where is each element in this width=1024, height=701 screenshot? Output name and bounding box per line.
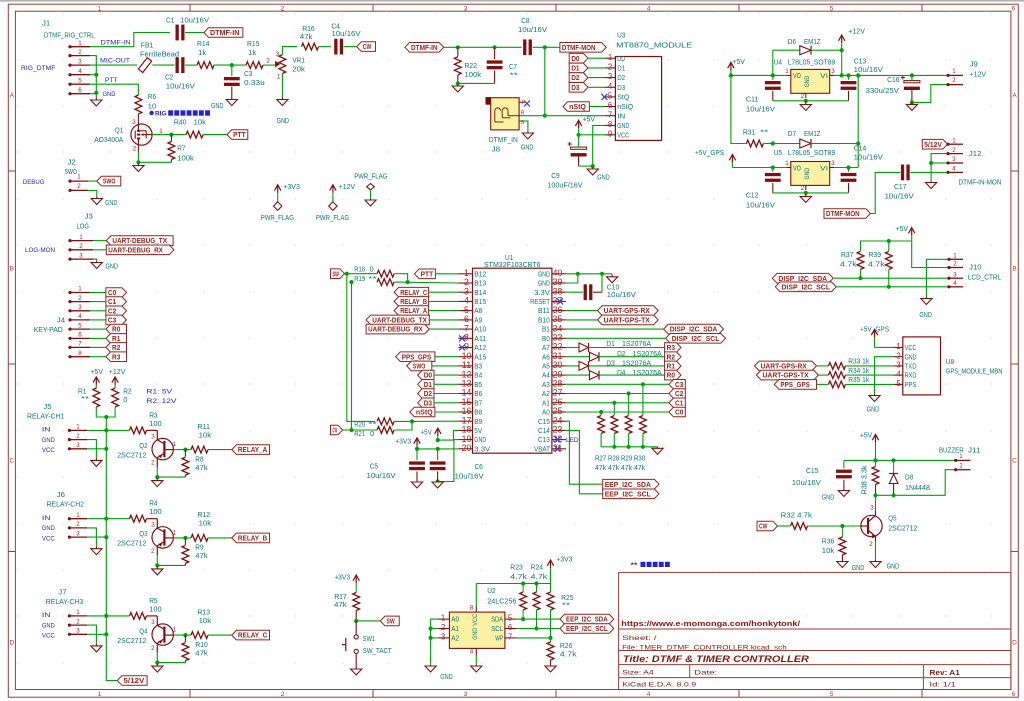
svg-text:1: 1 bbox=[441, 614, 445, 623]
svg-text:B: B bbox=[10, 266, 14, 273]
svg-text:R39: R39 bbox=[869, 252, 882, 259]
resistor R29 47k bbox=[628, 394, 630, 416]
svg-text:2: 2 bbox=[133, 146, 137, 153]
global label PPS_GPS gps bbox=[774, 380, 816, 390]
svg-text:5: 5 bbox=[78, 78, 82, 85]
wire J1 pin4 bbox=[90, 74, 96, 76]
svg-text:Sheet: /: Sheet: / bbox=[622, 635, 657, 642]
svg-text:**: ** bbox=[368, 422, 377, 429]
wire J10 pin1 to ground bbox=[926, 259, 948, 297]
svg-text:VBAT: VBAT bbox=[534, 444, 550, 453]
global label C2 bbox=[106, 306, 127, 316]
wire R18 R19 to B13 bbox=[394, 274, 407, 282]
svg-text:UART-GPS-TX: UART-GPS-TX bbox=[763, 371, 809, 380]
svg-text:RELAY_C: RELAY_C bbox=[238, 631, 268, 640]
wire J5 pin2 to ground bbox=[87, 440, 96, 459]
svg-text:6: 6 bbox=[1012, 691, 1016, 698]
svg-text:R3: R3 bbox=[112, 352, 120, 361]
svg-text:R33 1k: R33 1k bbox=[848, 359, 869, 366]
svg-text:3: 3 bbox=[831, 68, 835, 75]
global label UART-GPS-RX gps bbox=[755, 361, 817, 371]
global label C0 mcu bbox=[669, 407, 685, 417]
wire WP row u2 bbox=[517, 637, 551, 639]
ground Q4 bbox=[156, 664, 158, 667]
svg-text:9: 9 bbox=[608, 129, 612, 138]
svg-text:TXD: TXD bbox=[905, 362, 917, 371]
global label R0 mcu bbox=[665, 370, 681, 380]
global label 5/12V bottom bbox=[117, 676, 147, 686]
svg-text:DTMF-IN: DTMF-IN bbox=[210, 28, 239, 37]
svg-text:R21: R21 bbox=[354, 431, 365, 438]
resistor R30 47k bbox=[642, 384, 644, 415]
svg-text:PTT: PTT bbox=[421, 269, 434, 278]
svg-text:B14: B14 bbox=[474, 288, 486, 297]
svg-text:R10: R10 bbox=[195, 642, 208, 649]
svg-text:3: 3 bbox=[78, 304, 82, 311]
svg-text:C1: C1 bbox=[108, 297, 117, 306]
svg-text:D1: D1 bbox=[571, 64, 580, 73]
svg-text:GND: GND bbox=[867, 407, 880, 414]
wire D6 left down bbox=[772, 50, 774, 75]
svg-text:VCC: VCC bbox=[42, 633, 55, 640]
wire buzzer rail bbox=[844, 459, 955, 461]
svg-text:5/12V: 5/12V bbox=[123, 676, 145, 685]
svg-text:C1: C1 bbox=[166, 18, 174, 25]
svg-text:R37: R37 bbox=[841, 252, 854, 259]
global label R0 bbox=[106, 324, 127, 334]
no-connect U3 pin5 bbox=[601, 94, 607, 100]
wire Q1 drain to R40 bbox=[152, 134, 186, 136]
svg-text:R19: R19 bbox=[354, 276, 365, 283]
svg-text:D1: D1 bbox=[617, 64, 625, 73]
svg-text:1: 1 bbox=[608, 53, 612, 62]
ground J10 bbox=[925, 297, 927, 299]
wire J1 pin1 DTMF-IN bbox=[90, 33, 170, 47]
svg-text:10u/16V: 10u/16V bbox=[607, 292, 636, 299]
svg-text:R20: R20 bbox=[354, 422, 365, 429]
svg-text:VCC: VCC bbox=[617, 130, 629, 139]
svg-text:A: A bbox=[10, 93, 15, 100]
svg-text:Title: DTMF & TIMER CONTROLLER: Title: DTMF & TIMER CONTROLLER bbox=[623, 654, 809, 665]
svg-text:Rev: A1: Rev: A1 bbox=[930, 668, 960, 677]
global label R2 mcu bbox=[665, 352, 681, 362]
wire J6 pin2 to ground bbox=[87, 528, 96, 547]
svg-text:SWO: SWO bbox=[103, 177, 116, 186]
svg-text:CW: CW bbox=[333, 426, 338, 435]
svg-text:VI: VI bbox=[820, 165, 828, 172]
svg-text:47k: 47k bbox=[334, 602, 347, 609]
svg-text:10u/16V: 10u/16V bbox=[792, 480, 821, 487]
ground C9 bbox=[592, 167, 594, 169]
svg-text:4: 4 bbox=[78, 68, 82, 75]
global label UART-DEBUG_RX mcu bbox=[366, 324, 429, 334]
svg-text:0: 0 bbox=[123, 397, 127, 404]
svg-text:3: 3 bbox=[132, 119, 136, 126]
ground C3 bbox=[231, 98, 233, 100]
svg-text:A6: A6 bbox=[542, 352, 550, 361]
svg-text:2: 2 bbox=[281, 691, 285, 698]
global label EEP_I2C_SCL mcu bbox=[603, 489, 659, 499]
wire J6 pin1 to R4 bbox=[87, 518, 129, 520]
svg-text:R1: R1 bbox=[112, 334, 121, 343]
svg-text:2: 2 bbox=[78, 295, 82, 302]
svg-text:GND: GND bbox=[42, 622, 55, 629]
svg-text:DTMF-MON: DTMF-MON bbox=[562, 43, 596, 52]
ground U2 pin4 bbox=[475, 665, 477, 667]
ground J3 bbox=[96, 261, 98, 263]
svg-text:R16: R16 bbox=[302, 26, 315, 33]
svg-text:10u/16V: 10u/16V bbox=[746, 203, 775, 210]
wire to RELAY_C label bbox=[208, 634, 232, 636]
svg-text:EM1Z: EM1Z bbox=[804, 39, 821, 46]
wire J7 pin1 to R5 bbox=[87, 615, 129, 617]
power flag +3V3 bbox=[277, 192, 279, 202]
svg-text:U5: U5 bbox=[774, 150, 782, 157]
svg-text:47k: 47k bbox=[195, 553, 208, 560]
svg-text:1: 1 bbox=[76, 512, 80, 519]
wire J2 pin2 to ground bbox=[88, 190, 97, 196]
svg-text:2: 2 bbox=[952, 77, 956, 84]
svg-text:+5V: +5V bbox=[732, 59, 745, 66]
svg-text:RIG: RIG bbox=[155, 111, 167, 118]
wire SDA row to J10 bbox=[833, 277, 948, 279]
svg-text:+5V: +5V bbox=[421, 430, 432, 437]
svg-text:RELAY_A: RELAY_A bbox=[400, 306, 427, 315]
svg-text:20: 20 bbox=[462, 443, 472, 453]
svg-text:EEP_I2C_SCL: EEP_I2C_SCL bbox=[605, 489, 652, 498]
svg-text:R2: 12V: R2: 12V bbox=[146, 398, 177, 405]
svg-text:4.7k: 4.7k bbox=[531, 574, 548, 581]
svg-text:R3: R3 bbox=[667, 343, 675, 352]
svg-text:10u/16V: 10u/16V bbox=[746, 107, 775, 114]
svg-text:D3: D3 bbox=[617, 83, 625, 92]
svg-text:D3: D3 bbox=[571, 83, 579, 92]
wire R16 to C4 bbox=[319, 46, 331, 48]
global label D2 u3 bbox=[569, 73, 588, 83]
wire +12V to U5 VI bbox=[857, 75, 859, 167]
svg-text:1: 1 bbox=[952, 137, 956, 144]
ground VR1 bbox=[281, 98, 283, 100]
global label DTMF-MON right bbox=[824, 209, 870, 219]
wire Q1 source to ground bbox=[137, 144, 139, 152]
wire J5 pin3 to rail bbox=[87, 448, 106, 450]
svg-text:SW1: SW1 bbox=[363, 636, 376, 643]
svg-text:AO3400A: AO3400A bbox=[94, 137, 123, 144]
svg-text:R22: R22 bbox=[465, 63, 478, 70]
svg-text:2: 2 bbox=[896, 351, 900, 360]
global label CW bbox=[357, 42, 376, 52]
svg-text:1k: 1k bbox=[198, 50, 207, 57]
svg-text:1: 1 bbox=[77, 174, 81, 181]
svg-text:D2: D2 bbox=[571, 73, 579, 82]
global label UART-GPS-TX gps bbox=[756, 370, 818, 380]
svg-text:24LC256: 24LC256 bbox=[487, 598, 516, 605]
global label DTMF-IN mid bbox=[405, 43, 444, 53]
ground J2 bbox=[96, 197, 98, 199]
svg-text:**: ** bbox=[631, 562, 639, 569]
svg-text:2: 2 bbox=[953, 261, 957, 268]
wire R32 to Q5 base bbox=[808, 525, 861, 527]
svg-text:7: 7 bbox=[608, 110, 612, 119]
svg-text:B0: B0 bbox=[542, 334, 550, 343]
wire SW down bbox=[347, 274, 376, 422]
svg-text:3: 3 bbox=[831, 160, 835, 167]
svg-text:1S2076A: 1S2076A bbox=[633, 370, 662, 377]
ground R36 bbox=[841, 560, 843, 562]
svg-text:FB1: FB1 bbox=[141, 43, 154, 50]
svg-text:R14: R14 bbox=[197, 41, 210, 48]
svg-text:2SC2712: 2SC2712 bbox=[117, 638, 146, 645]
svg-text:LOG-MON: LOG-MON bbox=[25, 247, 55, 254]
global label C0 bbox=[106, 288, 127, 298]
svg-text:3: 3 bbox=[79, 252, 83, 259]
svg-text:6: 6 bbox=[78, 87, 82, 94]
no-connect RESET bbox=[557, 298, 563, 304]
svg-text:4.7k: 4.7k bbox=[840, 262, 857, 269]
svg-text:+5V_GPS: +5V_GPS bbox=[695, 150, 724, 157]
svg-text:1: 1 bbox=[953, 253, 957, 260]
svg-text:10k: 10k bbox=[199, 521, 212, 528]
svg-text:A2: A2 bbox=[451, 634, 459, 643]
svg-text:+12V: +12V bbox=[339, 184, 356, 191]
wire J2 pin1 to SWO label bbox=[88, 180, 97, 182]
svg-text:10k: 10k bbox=[199, 432, 212, 439]
wire A1 row C1 bbox=[566, 402, 669, 404]
global label R3 mcu bbox=[665, 343, 681, 353]
svg-text:C5: C5 bbox=[370, 464, 378, 471]
wire SDA row u2 bbox=[517, 618, 560, 620]
svg-text:R27 R28 R29 R30: R27 R28 R29 R30 bbox=[595, 456, 645, 463]
global label SW bbox=[331, 269, 345, 279]
svg-text:UART-DEBUG_RX: UART-DEBUG_RX bbox=[108, 245, 163, 254]
svg-text:SW: SW bbox=[333, 269, 340, 278]
svg-text:C17: C17 bbox=[894, 184, 907, 191]
svg-text:D: D bbox=[1012, 640, 1017, 647]
svg-text:B: B bbox=[1012, 266, 1016, 273]
svg-text:7: 7 bbox=[508, 633, 512, 642]
svg-text:B12: B12 bbox=[474, 269, 486, 278]
global label D0 mcu bbox=[418, 370, 434, 380]
svg-text:C2: C2 bbox=[165, 75, 173, 82]
svg-text:FerriteBead: FerriteBead bbox=[140, 52, 179, 59]
svg-text:1: 1 bbox=[78, 40, 82, 47]
no-connect J8 T bbox=[519, 101, 525, 103]
wire J8 R to U3 IN bbox=[519, 115, 605, 117]
svg-text:C3: C3 bbox=[244, 71, 252, 78]
svg-text:UART-DEBUG_RX: UART-DEBUG_RX bbox=[368, 325, 423, 334]
ground R22 bbox=[457, 84, 459, 86]
global label UART-GPS-TX mcu bbox=[566, 319, 598, 321]
wire SCL row to J10 bbox=[836, 286, 948, 288]
svg-text:CW: CW bbox=[759, 522, 768, 531]
svg-text:R35 1k: R35 1k bbox=[848, 377, 869, 384]
global label R3 bbox=[106, 352, 127, 362]
svg-text:R1: R1 bbox=[667, 362, 676, 371]
svg-text:Q2: Q2 bbox=[139, 443, 147, 450]
svg-text:6: 6 bbox=[1012, 5, 1016, 12]
svg-text:2SC2712: 2SC2712 bbox=[117, 541, 146, 548]
wire +3V3 to 3.3V pin bbox=[417, 448, 458, 450]
wire R37 to SDA row bbox=[860, 270, 862, 279]
wire +5V to 5V pin bbox=[438, 430, 459, 440]
svg-text:SW: SW bbox=[386, 617, 395, 626]
svg-text:4: 4 bbox=[647, 691, 651, 698]
svg-text:D4: D4 bbox=[617, 370, 625, 377]
svg-text:GND: GND bbox=[106, 264, 119, 271]
svg-text:3: 3 bbox=[896, 361, 900, 370]
wire C10 to gnd net bbox=[601, 274, 603, 292]
svg-text:B9: B9 bbox=[474, 417, 482, 426]
svg-text:PPS: PPS bbox=[905, 380, 917, 389]
wire VR1 to R16 bbox=[282, 47, 297, 55]
svg-text:PPS_GPS: PPS_GPS bbox=[780, 380, 809, 389]
svg-text:VCC: VCC bbox=[42, 535, 55, 542]
wire U4 VI rail bbox=[834, 74, 912, 76]
svg-text:3: 3 bbox=[441, 633, 445, 642]
svg-text:GND: GND bbox=[440, 674, 453, 681]
svg-text:C13: C13 bbox=[854, 59, 867, 66]
wire R19 row down bbox=[352, 282, 377, 430]
global label D2 mcu bbox=[418, 389, 434, 399]
svg-text:R13: R13 bbox=[198, 609, 211, 616]
ground J1 bbox=[95, 98, 97, 101]
svg-text:DTMF-IN: DTMF-IN bbox=[101, 39, 131, 46]
svg-text:RXD: RXD bbox=[905, 371, 917, 380]
wire VR1 to ground bbox=[281, 74, 283, 98]
svg-text:PWR_FLAG: PWR_FLAG bbox=[354, 173, 387, 180]
svg-text:SWO: SWO bbox=[413, 362, 426, 371]
global label SWO mcu bbox=[407, 361, 432, 371]
svg-text:VI: VI bbox=[820, 73, 828, 80]
svg-text:1: 1 bbox=[78, 286, 82, 293]
global label 5/12V right bbox=[922, 139, 947, 149]
svg-text:4.7k: 4.7k bbox=[560, 652, 577, 659]
svg-text:4.7k: 4.7k bbox=[510, 574, 527, 581]
svg-text:R15: R15 bbox=[247, 41, 260, 48]
svg-text:A8: A8 bbox=[474, 306, 482, 315]
svg-text:47k: 47k bbox=[195, 465, 208, 472]
svg-text:R26: R26 bbox=[560, 643, 573, 650]
svg-text:10u/16V: 10u/16V bbox=[180, 18, 209, 25]
svg-text:20k: 20k bbox=[292, 67, 305, 74]
svg-text:J6: J6 bbox=[57, 492, 65, 499]
svg-text:10u/16V: 10u/16V bbox=[854, 67, 883, 74]
wire A2 row C2 bbox=[566, 393, 669, 395]
svg-text:A0: A0 bbox=[542, 408, 550, 417]
svg-text:3: 3 bbox=[76, 442, 80, 449]
global label D3 u3 bbox=[569, 83, 588, 93]
svg-text:8: 8 bbox=[470, 605, 474, 612]
svg-text:**: ** bbox=[760, 130, 769, 137]
svg-text:GND: GND bbox=[42, 525, 55, 532]
svg-text:B11: B11 bbox=[538, 306, 550, 315]
svg-text:GND: GND bbox=[597, 175, 610, 182]
svg-text:1: 1 bbox=[959, 453, 963, 460]
svg-text:U3: U3 bbox=[617, 33, 625, 40]
ground J12 bbox=[930, 181, 932, 183]
svg-text:2: 2 bbox=[78, 49, 82, 56]
svg-text:C14: C14 bbox=[538, 426, 550, 435]
svg-text:PWR_FLAG: PWR_FLAG bbox=[316, 215, 349, 222]
global label PPS_GPS mcu bbox=[396, 352, 435, 362]
svg-text:J10: J10 bbox=[969, 265, 982, 272]
ground Q2 bbox=[156, 478, 158, 481]
global label RELAY_B bbox=[232, 533, 270, 543]
svg-text:3: 3 bbox=[953, 271, 957, 278]
svg-text:1: 1 bbox=[785, 160, 789, 167]
svg-text:C11: C11 bbox=[746, 97, 759, 104]
svg-text:J5: J5 bbox=[43, 404, 51, 411]
svg-text:100uF/16V: 100uF/16V bbox=[547, 182, 582, 189]
svg-text:C7: C7 bbox=[509, 64, 517, 71]
svg-text:RELAY-CH3: RELAY-CH3 bbox=[46, 599, 83, 606]
svg-text:+3V3: +3V3 bbox=[556, 557, 572, 564]
svg-text:A2: A2 bbox=[542, 389, 550, 398]
wire +3V3 rail u2 bbox=[550, 571, 552, 584]
ground R26 bbox=[550, 665, 552, 667]
svg-text:3: 3 bbox=[870, 505, 874, 512]
wire C16 ground node bbox=[912, 85, 947, 103]
svg-text:1: 1 bbox=[952, 68, 956, 75]
svg-text:10k: 10k bbox=[199, 618, 212, 625]
potentiometer VR1 bbox=[279, 55, 286, 74]
svg-text:1: 1 bbox=[98, 691, 102, 698]
svg-text:UART-GPS-RX: UART-GPS-RX bbox=[761, 362, 807, 371]
wire +5V_GPS to U5 VO bbox=[732, 167, 786, 169]
svg-text:100k: 100k bbox=[465, 72, 482, 79]
svg-text:VCC: VCC bbox=[905, 343, 917, 352]
svg-text:C: C bbox=[9, 458, 14, 465]
svg-text:GND: GND bbox=[103, 91, 116, 98]
global label DTMF-IN bbox=[204, 28, 243, 38]
svg-text:IN: IN bbox=[617, 111, 625, 120]
svg-text:VR1: VR1 bbox=[292, 58, 305, 65]
global label PTT mcu bbox=[415, 269, 436, 279]
wire C17 to DTMF-MON label bbox=[870, 172, 900, 213]
wire +5V rail disp bbox=[861, 241, 949, 268]
capacitor C3 bbox=[224, 77, 240, 80]
svg-text:3.3V: 3.3V bbox=[534, 288, 550, 297]
global label RELAY_A mcu bbox=[394, 306, 429, 316]
svg-text:A11: A11 bbox=[474, 334, 486, 343]
svg-text:C0: C0 bbox=[108, 288, 116, 297]
svg-text:2: 2 bbox=[76, 521, 80, 528]
svg-text:DISP_I2C_SDA: DISP_I2C_SDA bbox=[670, 325, 718, 334]
wire R39 to SCL row bbox=[888, 270, 890, 287]
svg-text:U2: U2 bbox=[487, 588, 495, 595]
wire U2 pin4 ground bbox=[475, 655, 477, 665]
ground SW1 bbox=[355, 668, 357, 670]
wire resistor array bottoms bbox=[601, 434, 657, 447]
svg-text:EM1Z: EM1Z bbox=[804, 131, 821, 138]
resistor R27 47k bbox=[600, 412, 602, 415]
svg-text:A10: A10 bbox=[474, 325, 486, 334]
svg-text:2: 2 bbox=[959, 462, 963, 469]
svg-text:VO: VO bbox=[793, 71, 801, 80]
ground C15 bbox=[843, 489, 845, 491]
svg-text:D7: D7 bbox=[788, 131, 796, 138]
ground U2 pins bbox=[430, 665, 432, 667]
no-connect C13 bbox=[555, 437, 561, 443]
global label SW sw1 bbox=[380, 616, 399, 626]
svg-text:10u/16V: 10u/16V bbox=[885, 194, 914, 201]
svg-text:+12V: +12V bbox=[109, 369, 126, 376]
wire U5 VI join bbox=[834, 167, 858, 169]
svg-text:A3: A3 bbox=[542, 380, 550, 389]
title block bbox=[619, 572, 1011, 689]
svg-text:DTMF_IN: DTMF_IN bbox=[489, 137, 518, 144]
svg-text:+3V3: +3V3 bbox=[283, 184, 300, 191]
